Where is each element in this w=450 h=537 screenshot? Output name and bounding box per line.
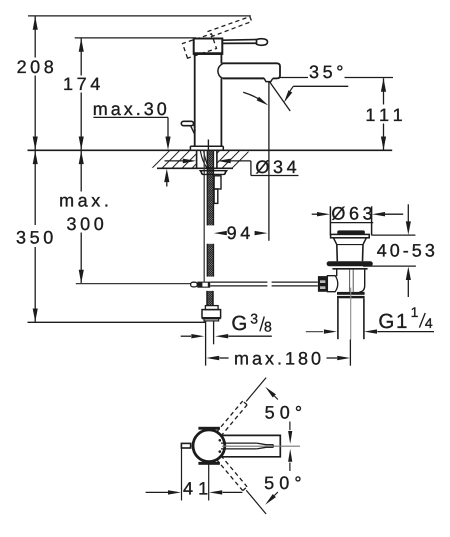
- dimension 41: [181, 448, 183, 500]
- drain O-ring (black): [327, 261, 373, 266]
- drain body below lip: [336, 269, 338, 277]
- ball rod housing: [327, 276, 337, 292]
- drain cup body: [336, 245, 339, 262]
- svg-text:G: G: [231, 312, 247, 335]
- dimension 174 line: [80, 38, 82, 76]
- 350 bottom reference line: [28, 321, 206, 323]
- top view dashed lever at +50deg (up): [221, 405, 247, 436]
- top view lever grip: [221, 442, 257, 444]
- max.300 reference line to pop-up rod: [76, 283, 191, 285]
- dimension 350 line below deck: [34, 150, 36, 225]
- drain cap side / extension lines: [329, 206, 331, 235]
- flexible hose lower segment: [207, 291, 213, 306]
- wire: top reference line (lever raised height 208): [28, 15, 251, 17]
- G3/8 thread tube: [205, 321, 207, 366]
- threaded shank walls: [196, 150, 198, 168]
- upper 50deg leader arrow: [274, 396, 278, 400]
- top view dashed lever at -50deg (down): [216, 459, 242, 490]
- dimension G1 1/4: [306, 331, 323, 333]
- drain centreline: [350, 288, 352, 340]
- base flange: [190, 145, 223, 147]
- dimension diameter 63: [312, 213, 317, 215]
- drain centre extension line: [349, 340, 351, 366]
- top view body bottom tab: [198, 462, 220, 465]
- faucet body right edge upper: [220, 54, 222, 63]
- top view faucet body circle: [193, 430, 225, 462]
- drain plug seal (black): [337, 230, 365, 234]
- top view cartridge dots: [219, 439, 222, 442]
- svg-text:1 7 4: 1 7 4: [63, 74, 100, 94]
- top view pop-up rod tab: [181, 443, 190, 448]
- drain tailpipe: [337, 298, 339, 339]
- svg-text:5 0 °: 5 0 °: [265, 403, 302, 423]
- G3/8 connection nut: [202, 310, 221, 318]
- svg-text:8: 8: [264, 319, 272, 335]
- top view lever outline: [221, 435, 280, 456]
- dimension G3/8 arrows: [181, 335, 191, 337]
- svg-text:3 0 0: 3 0 0: [66, 214, 103, 234]
- spout: [223, 62, 278, 64]
- pop-up rod junction clamp: [197, 282, 210, 288]
- shank internal guide curves: [200, 151, 207, 168]
- drain bottom nut bands: [337, 292, 365, 295]
- lever knob: [257, 39, 268, 46]
- svg-text:G 1: G 1: [378, 310, 407, 333]
- svg-text:3 5 °: 3 5 °: [309, 62, 343, 82]
- spout outlet extension line: [268, 81, 270, 240]
- drain neck taper: [334, 238, 337, 245]
- worktop hatching: [152, 151, 250, 169]
- svg-text:5 0 °: 5 0 °: [264, 473, 301, 493]
- top view centreline: [222, 445, 300, 447]
- svg-text:Ø 3 4: Ø 3 4: [255, 157, 296, 177]
- svg-text:1: 1: [411, 304, 419, 320]
- dimension 111: [383, 78, 385, 104]
- svg-text:9 4: 9 4: [227, 223, 251, 243]
- 35 degree annotation: [280, 77, 308, 79]
- mounting stud upper block: [214, 176, 221, 189]
- max.30 lower arrow (below worktop): [164, 169, 169, 183]
- dimension 94 arrows and label: [214, 231, 227, 235]
- svg-text:3: 3: [250, 310, 258, 326]
- swing arc arrow: [243, 92, 262, 101]
- svg-text:4 0 - 5 3: 4 0 - 5 3: [377, 241, 435, 261]
- faucet body left edge: [194, 54, 196, 146]
- knurled nut (black): [318, 276, 328, 292]
- svg-text:2 0 8: 2 0 8: [17, 57, 54, 77]
- worktop bottom line: [157, 167, 233, 169]
- horizontal pop-up linkage rod: [210, 281, 267, 283]
- lower 50deg tick arrow at lever: [288, 449, 292, 462]
- dashed head (raised position): [183, 34, 217, 58]
- lever handle (horizontal): [222, 39, 257, 42]
- faucet head (cartridge housing): [194, 39, 223, 54]
- svg-text:Ø 6 3: Ø 6 3: [331, 204, 372, 224]
- mounting stud lower block: [214, 189, 218, 203]
- flexible hose middle segment: [207, 244, 213, 277]
- pop-up rod stub above deck: [207, 140, 209, 151]
- lower 50deg leader arrow: [274, 492, 278, 496]
- svg-text:m a x .: m a x .: [59, 190, 109, 210]
- dimension 208 line: [34, 16, 36, 58]
- spout aerator notch: [264, 78, 273, 81]
- dimension max.180: [206, 356, 219, 360]
- dimension diameter 34 label: [183, 159, 197, 164]
- drain inner pipe lines: [349, 270, 351, 292]
- top view body top tab: [198, 427, 220, 430]
- svg-text:4 1: 4 1: [183, 479, 208, 499]
- dashed lever (raised position): [208, 17, 250, 32]
- svg-text:m a x . 3 0: m a x . 3 0: [93, 99, 167, 119]
- flexible hose (hatched) upper segment: [207, 151, 213, 226]
- 35 degree flow direction line: [269, 81, 290, 111]
- pop-up rod knob at faucet: [181, 121, 193, 125]
- drain lower lip: [332, 268, 367, 270]
- wire: 174 reference line (lever rest height): [75, 37, 196, 39]
- svg-text:1 1 1: 1 1 1: [365, 105, 402, 125]
- mounting washer below deck: [200, 171, 227, 175]
- svg-text:3 5 0: 3 5 0: [16, 227, 53, 247]
- dimension max.300 line: [80, 150, 82, 191]
- drain flange lip: [331, 234, 370, 237]
- dimension 40-53: [407, 204, 409, 221]
- spout-body fillet curve: [218, 64, 223, 79]
- pop-up rod below deck: [203, 151, 205, 282]
- worktop top line: [28, 149, 393, 151]
- upper 50deg tick arrow at lever: [289, 422, 291, 431]
- svg-text:m a x . 1 8 0: m a x . 1 8 0: [234, 348, 321, 368]
- hose collar above G3/8 nut: [205, 306, 218, 310]
- svg-text:4: 4: [425, 315, 433, 331]
- faucet body right edge lower: [220, 79, 222, 147]
